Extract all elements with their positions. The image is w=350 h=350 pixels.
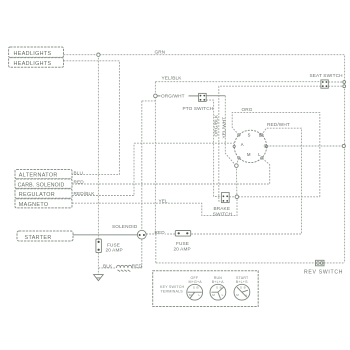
fuse F1 20 AMP (vertical, on ground bus)	[96, 239, 102, 253]
box REGULATOR	[15, 189, 72, 199]
svg-text:STARTER: STARTER	[25, 235, 52, 241]
wire PTO top right to M junction (vertical x225)	[206, 95, 225, 97]
junction node headlight/ground bus	[97, 53, 100, 56]
svg-text:RED/BLK: RED/BLK	[74, 191, 96, 196]
chart circle START	[234, 284, 250, 300]
label RED (fuse wire)	[157, 230, 166, 234]
wire solenoid vertical (top jog to coil row)	[141, 101, 143, 268]
chart circle OFF	[187, 284, 203, 300]
svg-text:BLK: BLK	[103, 264, 113, 269]
ground symbol	[94, 275, 104, 281]
svg-text:SEAT SWITCH: SEAT SWITCH	[310, 73, 343, 78]
svg-text:S: S	[193, 286, 195, 290]
svg-text:A: A	[241, 142, 244, 147]
seat switch symbol	[321, 80, 328, 88]
junction node G wire at ground bus	[342, 144, 345, 147]
wire seat switch lower left run and down to brake switch lower left	[219, 86, 321, 201]
brake switch symbol	[221, 193, 229, 203]
svg-text:REV SWITCH: REV SWITCH	[304, 270, 343, 276]
wire RED carb solenoid to key switch L	[72, 158, 270, 184]
coil L1 solenoid winding	[117, 265, 132, 268]
wire vertical from solenoid RED junction down to rev wire	[155, 234, 157, 263]
wire BLU: headlight 2 down to alternator	[64, 61, 120, 175]
svg-text:S: S	[248, 132, 251, 137]
box STARTER	[17, 231, 73, 241]
svg-text:REGULATOR: REGULATOR	[19, 192, 55, 198]
svg-text:HEADLIGHTS: HEADLIGHTS	[14, 61, 52, 67]
chart box: key switch positions	[153, 271, 259, 307]
wire RED solenoid through fuse 2 up to key switch B (RED/WHT)	[146, 128, 301, 234]
wire REV switch run (bottom right)	[156, 262, 345, 264]
svg-text:MAGNETO: MAGNETO	[19, 202, 49, 208]
svg-text:GRN: GRN	[155, 49, 166, 54]
wire ORG/WHT junction to PTO switch	[157, 95, 199, 97]
svg-text:CARB. SOLENOID: CARB. SOLENOID	[18, 182, 65, 188]
junction node seat switch lower at bus	[343, 85, 346, 88]
wire M terminal diagonal to junction	[237, 158, 239, 164]
svg-text:PTO SWITCH: PTO SWITCH	[183, 106, 214, 111]
svg-text:SOLENOID: SOLENOID	[112, 224, 138, 229]
chart circle RUN	[210, 284, 226, 300]
wire BLK coil row to solenoid coil	[98, 267, 141, 269]
wire YEL/BLK: corner to seat switch upper left	[155, 81, 321, 83]
svg-text:ORG/BLK: ORG/BLK	[214, 114, 219, 137]
svg-text:L: L	[246, 293, 248, 297]
box MAGNETO	[15, 199, 72, 208]
wire G terminal to right bus	[267, 145, 343, 147]
box HEADLIGHTS 2	[9, 58, 64, 68]
junction node ORG/WHT tap	[154, 94, 158, 98]
key switch U1	[233, 130, 268, 162]
svg-text:M: M	[212, 293, 215, 297]
junction node A/M below key switch	[235, 164, 239, 168]
svg-text:RED: RED	[155, 230, 166, 235]
svg-text:BRAKE: BRAKE	[214, 206, 231, 211]
svg-text:YEL/WHT: YEL/WHT	[222, 117, 227, 139]
junction node seat switch upper at bus	[343, 81, 346, 84]
svg-text:B: B	[244, 286, 246, 290]
svg-text:L: L	[222, 293, 224, 297]
svg-text:S: S	[216, 286, 218, 290]
wire jog from solenoid vertical to ORG/WHT vertical	[142, 100, 156, 102]
svg-text:ORG: ORG	[242, 107, 253, 112]
svg-text:HEADLIGHTS: HEADLIGHTS	[14, 51, 52, 57]
wire seat switch right side to bus circles	[328, 82, 342, 86]
fuse F2 20 AMP (horizontal, on RED wire)	[175, 231, 190, 237]
svg-text:YEL/BLK: YEL/BLK	[162, 76, 183, 81]
svg-text:B: B	[197, 286, 199, 290]
svg-text:YEL: YEL	[159, 198, 169, 203]
svg-text:L: L	[199, 293, 201, 297]
wire ORG loop: up, left, down to key switch S	[232, 112, 320, 196]
wire brake switch right to ORG loop	[229, 196, 320, 198]
svg-text:M: M	[247, 152, 251, 157]
wire A terminal to corner	[134, 142, 234, 144]
wire YEL magneto to brake switch circle	[72, 199, 237, 216]
wire GRN top bus: headlights to right ground bus	[64, 55, 345, 263]
PTO switch symbol	[199, 93, 207, 101]
wire starter to solenoid	[73, 234, 138, 236]
svg-text:RED: RED	[74, 180, 85, 185]
box CARB. SOLENOID	[15, 179, 72, 188]
svg-text:SWITCH: SWITCH	[213, 211, 232, 216]
svg-text:G: G	[264, 144, 267, 149]
svg-text:B+L+A: B+L+A	[212, 280, 224, 284]
svg-text:RED/WHT: RED/WHT	[267, 122, 290, 127]
svg-text:ORG/WHT: ORG/WHT	[161, 93, 185, 98]
label ORG/WHT	[161, 93, 189, 98]
svg-text:RED: RED	[132, 263, 143, 268]
junction node brake switch right	[235, 195, 239, 199]
box HEADLIGHTS 1	[9, 47, 64, 57]
svg-text:S: S	[240, 286, 242, 290]
wire M junction down to brake circle	[235, 166, 238, 197]
svg-text:20 AMP: 20 AMP	[174, 246, 191, 251]
svg-text:KEY SWITCH: KEY SWITCH	[160, 285, 185, 289]
rev switch symbol	[316, 260, 325, 266]
wire PTO bottom right down to brake switch upper left (ORG/BLK)	[206, 100, 221, 196]
svg-text:20 AMP: 20 AMP	[106, 247, 123, 252]
svg-text:B: B	[259, 132, 262, 137]
wire RED/BLK regulator up to A wire corner	[72, 143, 134, 195]
svg-text:M: M	[189, 293, 192, 297]
svg-text:B+L+S: B+L+S	[236, 280, 248, 284]
svg-text:TERMINALS: TERMINALS	[161, 290, 184, 294]
solenoid starter contact circle	[137, 230, 146, 239]
svg-text:ALTERNATOR: ALTERNATOR	[19, 173, 58, 179]
wire left ground bus from headlight junction down through fuse to ground	[97, 55, 99, 275]
svg-text:M: M	[236, 293, 239, 297]
svg-text:BLU: BLU	[74, 170, 84, 175]
box ALTERNATOR	[15, 170, 72, 179]
svg-text:B: B	[220, 286, 222, 290]
wire ORG/WHT vertical: YEL/BLK corner through junction down to RED junction	[154, 82, 156, 234]
svg-text:M+G+A: M+G+A	[189, 280, 203, 284]
